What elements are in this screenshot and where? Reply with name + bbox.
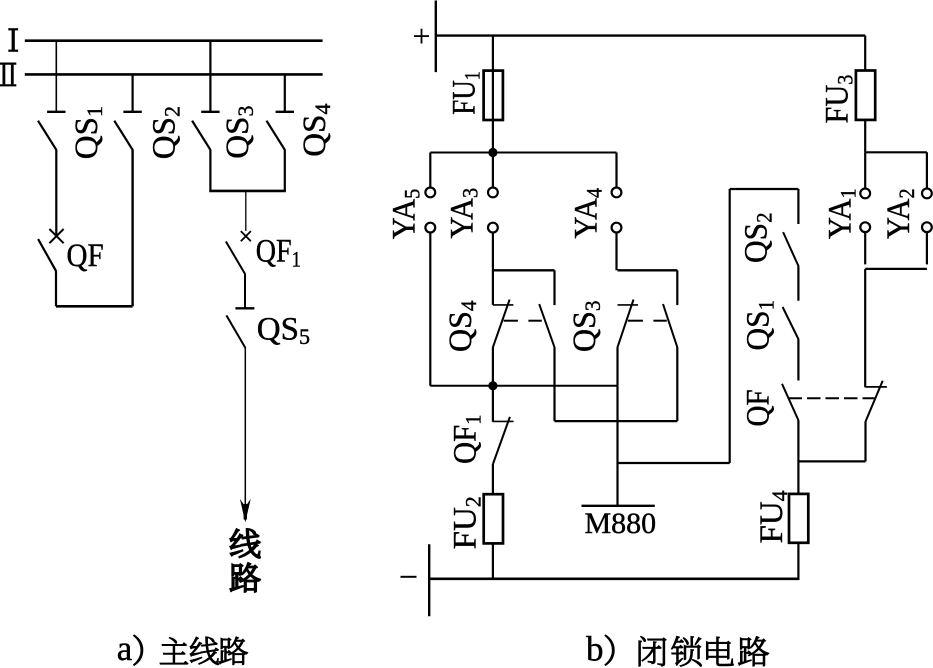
svg-text:a: a — [117, 629, 133, 668]
svg-text:QF: QF — [739, 389, 776, 426]
svg-text:QF: QF — [67, 236, 104, 273]
svg-text:b: b — [586, 630, 604, 668]
svg-text:M880: M880 — [585, 507, 657, 540]
